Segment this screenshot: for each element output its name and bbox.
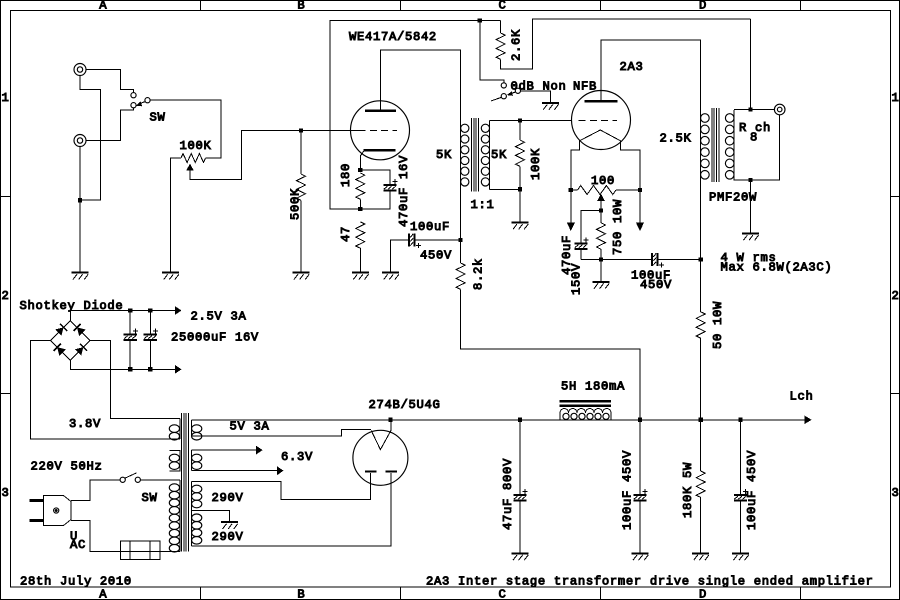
ground under 100K — [512, 222, 529, 224]
power transformer primary 220V winding — [179, 480, 181, 552]
wire B+ rail — [191, 419, 806, 421]
ground under 500K — [293, 272, 310, 274]
resistor 47 cathode — [356, 222, 365, 248]
svg-text:100: 100 — [591, 174, 615, 188]
filament supply arrow right — [639, 190, 641, 222]
svg-text:47uF 800V: 47uF 800V — [501, 458, 515, 530]
choke 5H 180mA coil — [560, 413, 611, 420]
svg-text:SW: SW — [150, 111, 166, 125]
svg-text:50 10W: 50 10W — [711, 301, 725, 349]
ground under 100uF 1 — [632, 552, 649, 554]
svg-text:3.8V: 3.8V — [69, 417, 101, 431]
interstage transformer T1 secondary winding 5K — [489, 121, 491, 190]
svg-text:1:1: 1:1 — [471, 198, 495, 212]
Lch arrow — [805, 416, 812, 425]
resistor 100K grid return — [519, 121, 521, 141]
capacitor 100uF 450V coupling — [391, 240, 408, 273]
switch SW1 lever — [139, 102, 145, 104]
svg-text:470uF 16V: 470uF 16V — [397, 155, 411, 227]
ground under 47uF — [512, 552, 529, 554]
bridge diode D3 (bottom-left) — [54, 344, 66, 356]
node grid line / 500K — [299, 128, 303, 132]
ground under center tap — [221, 521, 238, 523]
capacitor 25000uF 16V #1 — [129, 311, 131, 334]
svg-text:C: C — [499, 588, 507, 600]
ground under 750 — [593, 281, 610, 283]
svg-text:8.2k: 8.2k — [472, 258, 486, 290]
tube V3 plate 2 — [386, 470, 397, 472]
wire switch to primary top — [140, 479, 179, 481]
tube V2 2A3 envelope — [572, 91, 631, 150]
svg-text:B: B — [297, 0, 305, 13]
svg-text:2A3: 2A3 — [620, 60, 644, 74]
svg-text:220V 50Hz: 220V 50Hz — [31, 460, 103, 474]
switch SW1 contact A — [131, 93, 136, 98]
power transformer 290V upper winding — [190, 482, 192, 511]
svg-text:2.5V 3A: 2.5V 3A — [191, 310, 247, 324]
node hum pot wiper junction — [599, 208, 603, 212]
capacitor 470uF 16V cathode bypass — [360, 170, 390, 184]
wire 8.2k to B+ rail — [461, 289, 640, 419]
wire bridge AC left to 3.8V bottom — [31, 341, 180, 440]
capacitor 25000uF 16V #2 — [149, 311, 151, 334]
switch SW2 contact 0dB — [501, 83, 506, 88]
switch SW1 contact B — [131, 103, 136, 108]
svg-text:8: 8 — [750, 131, 758, 145]
wire 290V bottom to rectifier plate 2 — [191, 473, 391, 546]
tube V3 plate 1 — [365, 470, 376, 472]
svg-text:SW: SW — [142, 491, 158, 505]
svg-text:5H 180mA: 5H 180mA — [561, 380, 625, 394]
svg-text:290V: 290V — [212, 530, 244, 544]
mains switch SW3 lever — [125, 473, 137, 478]
wire output jack return loop — [734, 115, 780, 180]
ground under pot — [162, 272, 179, 274]
interstage transformer T1 primary winding 5K — [460, 121, 462, 241]
6.3V winding arrows — [191, 449, 256, 451]
tube V3 274B/5U4G envelope — [353, 430, 408, 485]
tube V1 WE417A/5842 envelope — [351, 101, 410, 160]
wire 290V center tap to ground — [191, 510, 229, 522]
resistor 8.2k decoupling — [460, 240, 462, 263]
bridge diode D1 (left-top) — [55, 324, 67, 336]
svg-text:100uF: 100uF — [410, 220, 450, 234]
wire secondary to 2A3 grid — [520, 120, 571, 122]
tube V2 grid dashes — [579, 119, 618, 121]
node NFB switch tap — [478, 18, 482, 22]
input jack J1 — [74, 64, 86, 76]
power transformer 3.8V winding — [179, 418, 181, 439]
svg-text:0dB: 0dB — [511, 79, 535, 93]
ground under input jacks — [72, 272, 89, 274]
ground under SW2 — [542, 102, 559, 104]
wire plug to fuse — [71, 520, 120, 551]
svg-text:100K: 100K — [180, 139, 212, 153]
svg-text:500K: 500K — [289, 188, 303, 220]
svg-text:6.3V: 6.3V — [281, 450, 313, 464]
switch SW2 lever — [512, 92, 516, 93]
svg-text:100uF 450V: 100uF 450V — [745, 450, 759, 530]
capacitor 100uF 450V filter 2 — [739, 420, 741, 494]
resistor 2.6K NFB — [496, 33, 505, 59]
output transformer T2 primary 2.5K — [700, 110, 702, 259]
wire secondary bottom to ground — [749, 180, 751, 233]
potentiometer VR1 100K body — [181, 154, 206, 163]
tube V1 grid dashes — [359, 129, 398, 131]
node B+ / 47uF — [518, 418, 522, 422]
wire bridge - rail — [70, 360, 175, 369]
ground under OPT secondary — [742, 233, 759, 235]
power transformer 290V lower winding — [190, 510, 192, 546]
node secondary top — [518, 118, 522, 122]
node B+ / 100uF 2 — [738, 418, 742, 422]
hum pot wiper arrow — [597, 194, 605, 201]
tube V1 plate lead to interstage — [380, 50, 460, 121]
svg-text:1: 1 — [2, 91, 10, 105]
node B+ / 100uF — [638, 418, 642, 422]
svg-text:100uF 450V: 100uF 450V — [621, 450, 635, 530]
resistor 750 10W bias — [600, 210, 602, 222]
svg-text:2: 2 — [892, 289, 900, 303]
node 417A cathode junction — [358, 168, 362, 172]
svg-text:2A3 Inter stage transformer dr: 2A3 Inter stage transformer drive single… — [426, 575, 874, 589]
ground under coupling cap — [382, 272, 399, 274]
potentiometer VR1 wiper arrow — [186, 164, 194, 171]
svg-text:750 10W: 750 10W — [611, 199, 625, 255]
tube V2 filament — [580, 130, 621, 141]
choke 5H 180mA core — [560, 400, 612, 403]
power transformer 5V winding — [190, 420, 192, 436]
switch SW2 contact Non — [501, 94, 506, 99]
ground under 100uF 2 — [732, 552, 749, 554]
ground under 47 — [352, 272, 369, 274]
svg-text:28th July 2010: 28th July 2010 — [20, 575, 132, 589]
wire NFB line to cathode junction — [330, 21, 501, 210]
node OPT return junction — [699, 257, 703, 261]
mains switch SW3 contact L — [120, 477, 125, 482]
svg-text:C: C — [499, 0, 507, 13]
hum pot 100 body — [571, 189, 640, 191]
wire J1 to switch contact A — [86, 70, 133, 93]
resistor 500K grid leak — [300, 131, 302, 175]
svg-text:5K: 5K — [491, 148, 507, 162]
node secondary bottom junction — [748, 178, 752, 182]
svg-text:PMF20W: PMF20W — [709, 191, 757, 205]
wire NFB from tap to 2.6K — [749, 19, 751, 110]
svg-text:150V: 150V — [570, 263, 584, 295]
tube V3 filament V — [371, 430, 391, 449]
node interstage primary bottom — [459, 238, 463, 242]
switch SW1 common — [145, 98, 150, 103]
svg-text:2.6K: 2.6K — [510, 29, 524, 61]
mains plug P1 — [44, 496, 72, 526]
wire 5V bottom to rectifier filament left — [191, 430, 371, 436]
node filament left junction — [569, 188, 573, 192]
svg-text:Lch: Lch — [790, 389, 814, 403]
wire J2 down to ground — [79, 147, 81, 273]
svg-text:2: 2 — [2, 289, 10, 303]
svg-text:A: A — [99, 0, 107, 13]
tube V2 plate lead to OPT — [601, 40, 701, 110]
wire switch common to volume pot — [150, 100, 221, 158]
svg-text:5V 3A: 5V 3A — [230, 420, 270, 434]
svg-text:100K: 100K — [529, 148, 543, 180]
svg-text:B: B — [297, 588, 305, 600]
capacitor 470uF 150V bias bypass — [581, 210, 601, 242]
svg-text:25000uF 16V: 25000uF 16V — [171, 330, 259, 344]
wire 290V top to rectifier plate 1 — [191, 473, 370, 500]
node rectifier output — [389, 418, 393, 422]
svg-text:AC: AC — [70, 538, 86, 552]
switch SW2 Non stub — [491, 97, 502, 101]
tube V1 cathode lead — [360, 151, 363, 170]
ground under 180K — [692, 552, 709, 554]
svg-text:5K: 5K — [436, 148, 452, 162]
wire J1 ground branch — [80, 76, 100, 201]
svg-text:Max 6.8W(2A3C): Max 6.8W(2A3C) — [721, 260, 833, 274]
tube V2 plate — [585, 100, 618, 103]
svg-text:Non: Non — [543, 79, 567, 93]
wire plug to mains switch — [71, 480, 120, 501]
svg-text:290V: 290V — [212, 491, 244, 505]
node secondary bottom — [518, 187, 522, 191]
capacitor 47uF 800V filter — [519, 420, 521, 494]
svg-text:D: D — [699, 0, 707, 13]
node bias network bottom — [599, 257, 603, 261]
wire secondary top to output jack — [734, 109, 775, 111]
wire J2 to switch contact B — [86, 108, 133, 141]
svg-text:2.5K: 2.5K — [660, 132, 692, 146]
svg-text:47: 47 — [339, 226, 353, 242]
input jack J2 — [74, 135, 86, 147]
node filament right junction — [638, 188, 642, 192]
resistor 180 cathode — [356, 173, 365, 199]
output transformer T2 core — [712, 108, 719, 182]
wire bridge AC right to 3.8V top — [90, 341, 180, 419]
capacitor 100uF 450V bias — [581, 259, 651, 261]
svg-text:3: 3 — [892, 486, 900, 500]
svg-text:D: D — [699, 588, 707, 600]
tube V2 filament left lead — [571, 141, 580, 190]
svg-text:A: A — [99, 588, 107, 600]
svg-text:1: 1 — [892, 91, 900, 105]
svg-text:180: 180 — [339, 163, 353, 187]
bridge diode D4 (bottom-right) — [75, 344, 87, 356]
wire wiper to 417A grid — [190, 131, 359, 180]
node 180/47 junction — [358, 207, 362, 211]
resistor 50 10W B+ dropper — [700, 260, 702, 312]
mains switch SW3 contact R — [135, 477, 140, 482]
tube V2 filament right lead — [620, 141, 640, 190]
tube V1 plate — [365, 109, 396, 112]
power transformer left aux winding — [170, 450, 180, 471]
output jack R ch — [774, 104, 785, 115]
node NFB tap — [748, 107, 752, 111]
svg-text:274B/5U4G: 274B/5U4G — [369, 398, 441, 412]
output transformer T2 secondary 8ohm — [733, 110, 735, 180]
power transformer T3 core — [182, 413, 189, 552]
filament supply arrow left — [570, 190, 572, 222]
svg-text:180K 5W: 180K 5W — [681, 462, 695, 518]
node J2/J1 junction — [78, 198, 82, 202]
switch SW2 common — [515, 88, 520, 93]
svg-text:450V: 450V — [420, 248, 452, 262]
capacitor 100uF 450V filter 1 — [639, 420, 641, 494]
node B+ / 50 10W — [699, 418, 703, 422]
switch SW2 common to ground — [521, 91, 551, 103]
fuse F1 — [120, 541, 160, 560]
wire bridge + rail — [70, 311, 175, 321]
svg-text:450V: 450V — [640, 278, 672, 292]
bridge diode D2 (right-top) — [73, 324, 85, 336]
switch SW2 0dB/Non wire from tap — [480, 21, 504, 83]
potentiometer VR1 left lead to ground — [171, 158, 181, 273]
resistor 180K 5W bleeder — [700, 420, 702, 471]
bridge rectifier diamond — [51, 321, 90, 360]
interstage transformer T1 core — [472, 118, 479, 192]
tube V1 cathode — [364, 149, 396, 152]
svg-text:WE417A/5842: WE417A/5842 — [349, 30, 437, 44]
power transformer 6.3V winding — [190, 450, 192, 471]
tube V3 filament right lead to B+ — [390, 420, 392, 431]
svg-text:3: 3 — [2, 486, 10, 500]
